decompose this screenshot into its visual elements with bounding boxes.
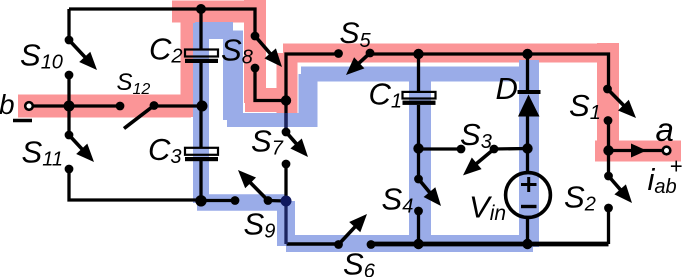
wire a node to terminal (609, 149, 664, 152)
wire C1 column (417, 54, 420, 92)
wire bottom rail left of S6 (287, 242, 339, 245)
svg-text:S10: S10 (20, 37, 63, 73)
capacitor C2 (185, 50, 218, 64)
voltage source Vin (506, 173, 551, 218)
switch S4 (414, 175, 441, 216)
wire left column upper (67, 9, 70, 40)
switch S9 (231, 170, 273, 205)
highlight red: riser to top distribution rail (277, 53, 298, 113)
junction node S9/S7 (navy under blue) (281, 196, 292, 207)
svg-text:Vin: Vin (469, 189, 506, 225)
switch S10 (65, 36, 97, 80)
svg-text:S3: S3 (460, 117, 492, 153)
highlight blue: S9 row (197, 194, 286, 211)
wire S8 column (255, 68, 286, 101)
junction node b (64, 101, 75, 112)
wire S10 contact to b node (67, 75, 70, 106)
switch S8 (251, 32, 282, 73)
junction node D/Vin/S3 (522, 143, 532, 153)
wire b terminal to S12 (32, 104, 120, 107)
highlight blue: S9 junction to bottom rail (277, 201, 295, 246)
svg-text:a: a (656, 111, 674, 148)
highlight red: top rail (172, 1, 255, 23)
highlight blue: riser parallel (299, 74, 318, 127)
wire S11 contact down and right to C3 bottom node (69, 169, 202, 200)
terminal b (25, 102, 33, 110)
junction node S8 output (281, 95, 291, 105)
highlight blue: C1 column (409, 74, 431, 246)
junction node C3 bottom (195, 195, 206, 206)
highlight red: b input row (18, 95, 191, 118)
wire S4 contact to bottom rail (417, 211, 420, 244)
switch S5 (334, 49, 374, 75)
wire D column top (526, 54, 529, 92)
wire riser and top distribution rail (286, 54, 339, 101)
highlight blue: D/Vin column (519, 60, 539, 247)
switch S6 (334, 214, 375, 249)
junction node C1/S3/S4 (413, 143, 423, 153)
switch S12 (no arrow) (116, 101, 159, 128)
switch S3 (457, 145, 499, 176)
wire S2 contact to bottom rail (607, 208, 610, 244)
svg-text:S7: S7 (251, 123, 284, 159)
svg-text:S4: S4 (382, 182, 414, 218)
highlight red: a output row (595, 141, 681, 162)
wire D anode to Vin node (526, 114, 529, 149)
svg-text:C3: C3 (148, 132, 182, 168)
capacitor C3 (185, 148, 218, 161)
wire Vin bottom (526, 218, 529, 244)
diode D (518, 90, 541, 117)
capacitor C1 (403, 92, 436, 105)
junction node C2/C3 (197, 101, 208, 112)
highlight red: S8 output row (245, 88, 288, 112)
highlight blue: S8 parallel column (223, 31, 243, 121)
wire S9 row (202, 199, 235, 202)
svg-text:C2: C2 (149, 32, 183, 68)
wire C3 column (199, 106, 202, 148)
wire Vin node to source top (526, 149, 529, 173)
junction node Vin bottom rail (522, 239, 532, 249)
svg-text:S1: S1 (569, 88, 601, 124)
highlight blue: top connector under top rail (195, 22, 233, 39)
highlight red: S8 column (244, 0, 266, 103)
wire top rail (69, 9, 255, 36)
wire C2 column (199, 9, 202, 50)
junction node top of C2 (196, 4, 206, 14)
switch S1 (603, 85, 636, 125)
svg-text:+: + (670, 154, 683, 179)
svg-text:S2: S2 (564, 180, 596, 216)
terminal a (663, 147, 671, 155)
svg-text:C1: C1 (369, 77, 403, 113)
switch S2 (604, 172, 632, 213)
svg-text:S5: S5 (340, 17, 372, 52)
junction node a (603, 145, 613, 155)
svg-text:S9: S9 (244, 206, 276, 242)
wire b node down to S11 (67, 106, 70, 135)
junction node C1 bottom rail (413, 239, 423, 249)
highlight blue: bottom rail (286, 235, 533, 252)
ink layer (32, 9, 663, 244)
junction node C1 top (413, 49, 423, 59)
svg-text:b: b (0, 89, 15, 120)
current arrow i_ab on a wire (631, 144, 647, 158)
wire C1 node to S4 pivot (417, 149, 420, 180)
svg-text:S11: S11 (22, 134, 63, 170)
switch S7 (282, 128, 308, 169)
wire S7 column (284, 101, 287, 133)
wire S1 contact to a node (607, 121, 610, 151)
highlight red: top distribution rail (283, 44, 608, 63)
svg-text:D: D (496, 71, 518, 106)
wire S12 pivot to C2 bottom node (154, 104, 202, 107)
switch S11 (65, 131, 94, 174)
svg-text:S12: S12 (117, 69, 151, 98)
wire S9 junction to bottom rail (navy under blue band) (284, 201, 287, 244)
highlight blue: C2/C3 column (193, 23, 209, 203)
highlight red: C2 column (181, 12, 202, 118)
wire a node to S2 pivot (607, 151, 610, 177)
wire S3 row (419, 147, 462, 150)
highlight blue: junction row below S8 output (227, 113, 308, 127)
highlight blue: top distribution rail parallel (301, 67, 532, 82)
label b minus (13, 119, 32, 122)
highlight red: S1 column (597, 43, 619, 151)
junction node D top (522, 49, 532, 59)
wire junction to S7 pivot lower part (navy under blue band) (284, 113, 287, 132)
